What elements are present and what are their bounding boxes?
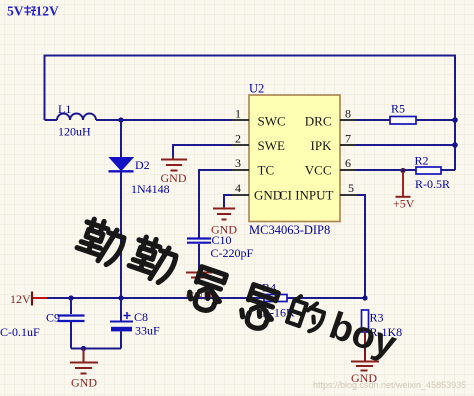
node rail / C8 D2 [118,295,123,300]
svg-text:C8: C8 [134,310,148,324]
svg-text:12V: 12V [10,292,31,306]
pin 1 [232,107,249,121]
resistor R4 [262,281,295,320]
ground R3 [351,362,379,371]
wire left vertical to L1 [44,55,46,121]
title 5V转12V [7,4,59,19]
ground pin4 [213,207,235,220]
wire pin5 down to feedback node [357,195,365,298]
svg-text:MC34063-DIP8: MC34063-DIP8 [249,223,330,237]
node right vertical / pin7 [452,142,458,148]
wire pin7 to right vertical [356,144,455,146]
svg-text:2: 2 [235,132,241,146]
node GND label R3 [351,371,377,385]
wire C9 top [70,298,72,314]
pin 2 [232,132,249,146]
wire D2 cathode down to rail [120,171,122,298]
ground C9 C8 [70,349,98,374]
pin 5 [340,181,357,195]
svg-text:5: 5 [348,181,354,195]
svg-text:TC: TC [258,163,275,178]
wire right vertical [454,55,456,171]
pin 6 [340,156,356,170]
capacitor C10 [187,233,254,260]
ground C10 [186,269,212,283]
wire D2 anode [120,120,122,157]
wire pin8 to R5 [356,119,390,121]
svg-text:33uF: 33uF [135,324,160,338]
node GND label C10 [186,289,212,303]
svg-text:+5V: +5V [393,197,415,211]
diode D2 [109,158,170,197]
watermark 勤勤恳恳的boy [71,216,402,373]
wire C10 to ground [198,244,200,269]
wire rail right of R4 [287,297,365,299]
pin 8 [340,107,356,121]
svg-text:VCC: VCC [305,163,332,178]
wire C8 bottom [120,331,122,348]
node GND label C9 C8 [71,376,97,390]
pin 3 [232,156,249,170]
node right vertical / R5 [452,117,458,123]
node +5V junction [400,168,405,173]
power +5V [393,172,415,211]
resistor R3 [362,310,403,339]
svg-text:GND: GND [71,376,97,390]
pin 4 [232,181,249,195]
svg-text:SWC: SWC [258,114,286,129]
svg-text:R5: R5 [391,102,405,116]
wire pin2 to ground [173,145,232,157]
wire R2 to right vertical [441,169,455,171]
svg-text:4: 4 [235,181,241,195]
svg-text:DRC: DRC [305,114,332,129]
wire C9 bottom [70,322,72,349]
watermark url [313,380,466,390]
svg-text:L1: L1 [58,102,71,116]
node rail / C9 [68,295,73,300]
resistor R2 [415,154,451,192]
svg-text:GND: GND [161,171,187,185]
svg-text:GND: GND [211,223,237,237]
svg-text:https://blog.csdn.net/weixin_4: https://blog.csdn.net/weixin_45853935 [313,380,466,390]
wire C8 top [120,298,122,321]
svg-text:8: 8 [345,107,351,121]
svg-text:U2: U2 [249,82,264,96]
svg-text:5V: 5V [7,4,24,19]
svg-text:IPK: IPK [311,138,333,153]
node bottom link / ground [81,346,86,351]
op-amp U2 body MC34063 [249,82,340,238]
capacitor C8 polarized [110,310,160,338]
node junction L1/D2 [118,117,123,122]
svg-text:SWE: SWE [258,138,286,153]
pin 7 [340,132,356,146]
svg-text:3: 3 [235,156,241,170]
svg-text:120uH: 120uH [58,125,91,139]
svg-text:GND: GND [254,188,282,203]
node GND label pin2 [161,171,187,185]
wire R3 to ground [364,332,366,361]
resistor R5 [390,102,416,125]
wire pin3 to C10 [199,170,232,238]
svg-text:6: 6 [345,156,351,170]
svg-text:C9: C9 [46,311,60,325]
wire output rail left [47,297,264,299]
svg-text:C-220pF: C-220pF [211,246,254,260]
svg-text:D2: D2 [135,158,150,172]
svg-text:12V: 12V [36,4,60,19]
node GND label pin4 [211,223,237,237]
wire C9-C8 bottom link [71,348,121,350]
svg-text:R2: R2 [415,154,429,168]
svg-text:R-0.5R: R-0.5R [415,177,450,191]
svg-text:7: 7 [345,132,351,146]
ground pin2 [161,157,187,171]
svg-text:C-0.1uF: C-0.1uF [0,325,40,339]
svg-text:CI INPUT: CI INPUT [279,188,334,203]
inductor L1 [45,102,97,139]
wire pin6 to R2 [356,169,416,171]
port 12V [10,292,48,307]
wire top rail [45,55,456,57]
wire L1 to pin1 [96,119,232,121]
node feedback junction [362,295,367,300]
svg-text:1: 1 [235,107,241,121]
wire R5 to right vertical [416,119,455,121]
capacitor C9 [0,311,85,340]
wire pin4 to ground [224,195,232,207]
